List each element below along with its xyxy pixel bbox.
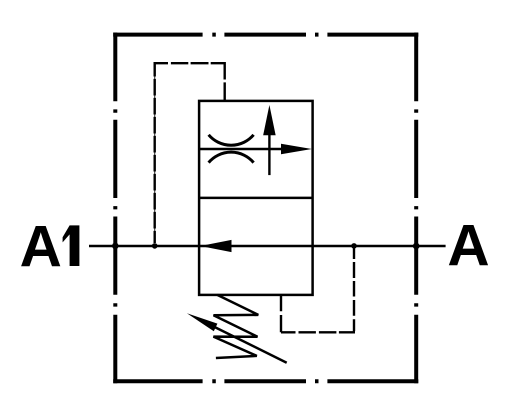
arrowhead on main line (flow toward A1) [200,240,231,252]
junction dot where dashed pilot meets main line (right) [351,243,357,249]
junction dot on main line at right border crossing [413,243,420,250]
arrowhead of vertical up arrow [263,105,276,135]
spring adjustment arrow shaft (diagonal) [211,325,287,363]
valve section divider line [199,197,313,200]
arrowhead on throttle flow line (pointing right) [281,144,312,155]
enclosure dash-dot border (valve housing outline) [113,33,418,384]
svg-text:A: A [20,214,62,279]
junction dot on main line at left border crossing [112,243,119,250]
throttle restrictor lower arc [209,152,254,162]
throttle restrictor upper arc [209,135,254,145]
spring (zigzag) below valve [213,295,258,358]
throttle flow line [199,148,283,151]
main line A1 to A [89,245,446,248]
svg-text:A: A [447,214,489,279]
junction dot where dashed pilot meets main line (left) [152,243,158,249]
arrowhead of spring adjustment arrow [187,313,218,331]
vertical up arrow shaft in valve [268,132,270,175]
valve body rectangle [199,101,313,295]
pilot line thin bridge under dashed riser [154,64,156,243]
pilot line (dashed) from valve bottom to node on main line near A [281,249,355,333]
pilot line (dashed) from node on main line up and over to valve top [154,63,226,243]
